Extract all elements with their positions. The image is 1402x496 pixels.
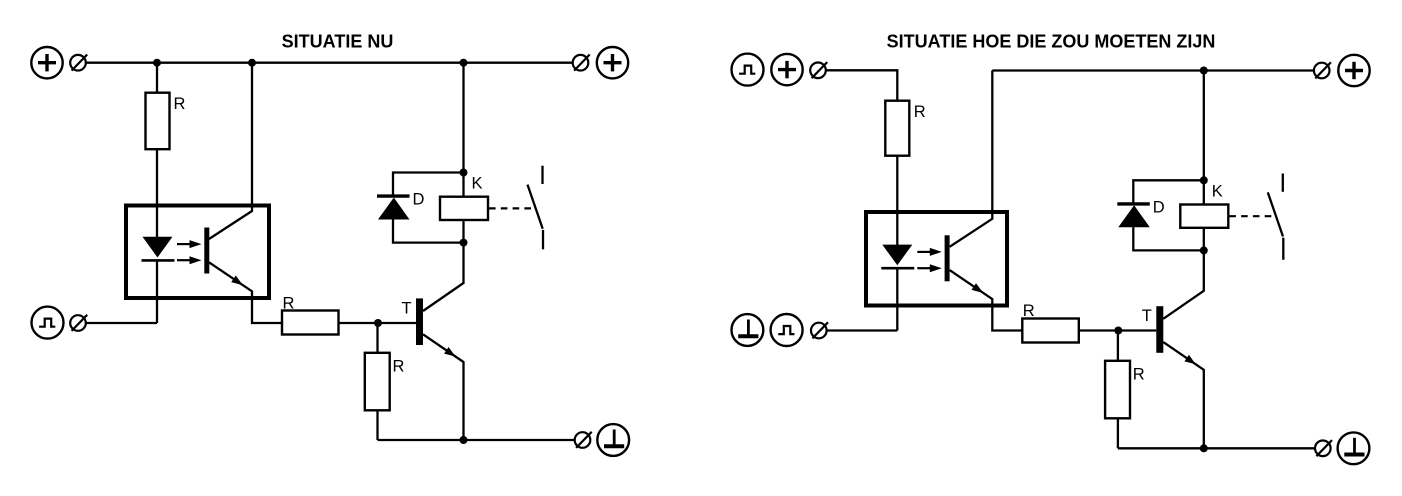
- wire input return to LED cathode (right circuit): [827, 329, 897, 331]
- resistor R4 (LED series): [885, 101, 909, 156]
- wire R5 to base node (right circuit): [1078, 329, 1156, 331]
- wire relay bottom to collector (left circuit): [462, 220, 464, 243]
- opto emitter arrowhead: [231, 276, 243, 286]
- wire input supply to R4 (right circuit): [827, 70, 898, 100]
- wire relay bottom to collector (right circuit): [1203, 228, 1205, 251]
- switch contact S2 (right circuit): [1282, 174, 1284, 192]
- wire R4 to LED anode (right circuit): [896, 156, 898, 246]
- resistor R5 (base series): [1022, 319, 1079, 343]
- node relay top junction (right circuit): [1200, 176, 1208, 184]
- node junction emitter / ground rail (left circuit): [460, 436, 468, 444]
- wire Q2 collector (right circuit): [1163, 250, 1204, 318]
- terminal pulse supply (right circuit, top-left): [732, 54, 764, 86]
- svg-text:R: R: [1133, 365, 1145, 383]
- wire Q2 emitter (right circuit): [1163, 342, 1204, 448]
- node junction V+ / relay (left circuit): [460, 59, 468, 67]
- light arrow 2 of U2: [917, 267, 932, 269]
- phototransistor base bar of U1: [204, 228, 209, 274]
- wire R2 to base node (left circuit): [338, 322, 416, 324]
- terminal + supply (right circuit, top-left): [771, 54, 802, 85]
- wire diode top link (left circuit): [393, 173, 464, 196]
- terminal pin (right circuit, bottom-right): [1315, 441, 1331, 457]
- transistor Q2 base bar: [1156, 306, 1163, 353]
- svg-text:SITUATIE HOE DIE ZOU MOETEN ZI: SITUATIE HOE DIE ZOU MOETEN ZIJN: [887, 32, 1216, 52]
- terminal pin (left circuit, bottom-left): [70, 315, 86, 331]
- terminal pin (right circuit, top-left): [810, 63, 826, 79]
- svg-text:K: K: [1212, 182, 1223, 200]
- phototransistor base bar of U2: [945, 235, 950, 281]
- Q2 emitter arrowhead: [1184, 355, 1195, 365]
- wire opto emitter (right circuit): [950, 270, 1023, 330]
- terminal pulse return (right circuit, bottom-left): [771, 314, 803, 346]
- wire top supply rail (right circuit): [992, 69, 1314, 71]
- wire Q1 emitter (left circuit): [423, 334, 464, 440]
- wire LED cathode down to input row (left circuit): [156, 260, 158, 323]
- svg-text:D: D: [413, 191, 425, 209]
- terminal + supply (right circuit, top-right): [1338, 55, 1369, 86]
- terminal pin (left circuit, bottom-right): [575, 432, 591, 448]
- svg-text:K: K: [472, 175, 483, 193]
- wire base node to R3 (left circuit): [376, 323, 378, 353]
- terminal pin (left circuit, top-right): [573, 55, 589, 71]
- wire diode bottom link (right circuit): [1133, 227, 1204, 250]
- terminal pin (right circuit, top-right): [1314, 63, 1330, 79]
- svg-text:SITUATIE NU: SITUATIE NU: [282, 32, 394, 52]
- terminal pin (left circuit, top-left): [70, 55, 86, 71]
- svg-text:R: R: [1023, 302, 1035, 320]
- wire ground rail (left circuit): [378, 439, 575, 441]
- wire R3 to ground rail (left circuit): [376, 410, 378, 440]
- Q1 emitter arrowhead: [444, 347, 455, 357]
- svg-text:T: T: [1142, 307, 1152, 325]
- node junction emitter / ground rail (right circuit): [1200, 444, 1208, 452]
- svg-text:R: R: [174, 95, 186, 113]
- resistor R2 (base series): [282, 311, 339, 335]
- terminal pulse input (left circuit, bottom-left): [32, 307, 64, 339]
- dashed actuator link (right circuit): [1229, 215, 1272, 217]
- wire LED cathode down to input row (right circuit): [896, 268, 898, 330]
- node base junction (left circuit): [374, 319, 382, 327]
- wire diode top link (right circuit): [1133, 180, 1204, 203]
- wire opto emitter (left circuit): [209, 262, 282, 323]
- terminal pin (right circuit, bottom-left): [811, 323, 827, 339]
- resistor R6 (base pulldown): [1105, 361, 1130, 419]
- resistor R3 (base pulldown): [365, 353, 390, 411]
- svg-text:R: R: [283, 295, 295, 313]
- diode D2 (flyback): [1117, 202, 1150, 205]
- opto emitter arrowhead (right): [972, 283, 984, 293]
- optocoupler U2 body: [866, 212, 1007, 306]
- svg-text:D: D: [1153, 198, 1165, 216]
- LED of optocoupler U1: [143, 237, 173, 258]
- wire relay top feed (right circuit): [1203, 71, 1205, 205]
- wire ground rail (right circuit): [1118, 447, 1315, 449]
- light arrow 2 of U1: [177, 259, 192, 261]
- LED of optocoupler U2: [882, 245, 912, 266]
- optocoupler U1 body: [126, 206, 269, 299]
- light arrow 1 of U2: [917, 251, 932, 253]
- resistor R1: [146, 93, 170, 150]
- terminal + supply (left circuit, top-left): [31, 47, 62, 78]
- wire Q1 collector (left circuit): [423, 243, 464, 311]
- wire pulse input to LED cathode (left circuit): [87, 322, 158, 324]
- wire diode bottom link (left circuit): [393, 220, 464, 243]
- wire R1 to LED anode (left circuit): [156, 149, 158, 237]
- terminal earth (left circuit, bottom-right): [597, 424, 629, 456]
- diode D1 (flyback): [377, 194, 410, 197]
- node junction V+ / opto collector (left circuit): [248, 59, 256, 67]
- node relay bottom junction (right circuit): [1200, 246, 1208, 254]
- terminal earth (right circuit, bottom-right): [1338, 432, 1370, 464]
- node relay top junction (left circuit): [460, 169, 468, 177]
- wire relay top feed (left circuit): [462, 63, 464, 197]
- terminal + supply (left circuit, top-right): [597, 47, 628, 78]
- dashed actuator link (left circuit): [489, 207, 532, 209]
- wire base node to R6 (right circuit): [1117, 331, 1119, 361]
- transistor Q1 base bar: [416, 298, 423, 345]
- svg-text:R: R: [914, 103, 926, 121]
- svg-text:T: T: [402, 299, 412, 317]
- switch contact S1 (left circuit): [541, 166, 543, 184]
- svg-text:R: R: [393, 357, 405, 375]
- light arrow 1 of U1: [177, 243, 192, 245]
- wire opto collector to top rail (left circuit): [209, 63, 252, 239]
- node base junction (right circuit): [1114, 327, 1122, 335]
- wire top supply rail (left circuit): [87, 62, 573, 64]
- relay coil K1: [440, 197, 488, 220]
- node junction V+ / relay (right circuit): [1200, 67, 1208, 75]
- wire V+ to R1 (left circuit): [156, 63, 158, 93]
- wire R6 to ground rail (right circuit): [1117, 418, 1119, 448]
- relay coil K2: [1180, 205, 1228, 228]
- node junction V+ / R1 (left circuit): [153, 59, 161, 67]
- wire opto collector to top rail (right circuit): [950, 71, 993, 247]
- terminal earth (right circuit, bottom-left): [732, 314, 764, 346]
- node relay bottom junction (left circuit): [460, 239, 468, 247]
